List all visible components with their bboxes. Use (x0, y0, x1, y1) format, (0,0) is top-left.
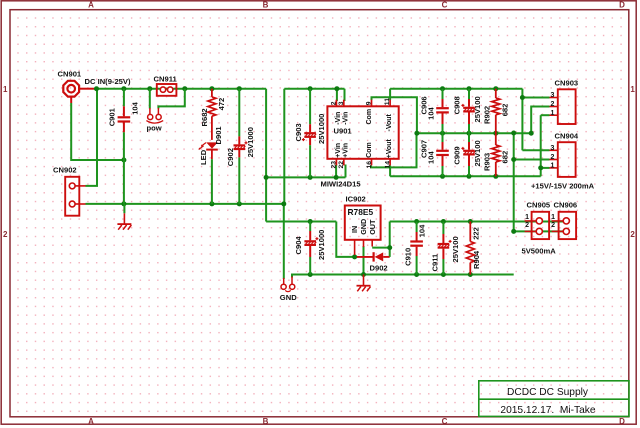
svg-text:22: 22 (338, 161, 345, 169)
junction at (531.2,133.2) (529, 131, 534, 136)
svg-text:CN901: CN901 (58, 70, 82, 79)
junction at (310.1,177.4) (308, 175, 313, 180)
wire +15V to CN904 pin1 (541, 167, 550, 169)
plus mark (C908) (461, 104, 464, 106)
wire R682 bottom lead (211, 116, 213, 140)
svg-text:C910: C910 (404, 248, 413, 266)
svg-text:3: 3 (551, 92, 555, 99)
svg-text:3: 3 (551, 145, 555, 152)
wire ground stub (input) (123, 204, 125, 213)
plus mark (C909) (461, 147, 464, 149)
svg-text:104: 104 (426, 151, 435, 164)
svg-text:B: B (263, 0, 269, 9)
resistor R682 (208, 97, 216, 116)
svg-text:R903: R903 (482, 153, 491, 171)
svg-text:A: A (88, 0, 94, 9)
junction at (416.9,133.2) (414, 131, 419, 136)
svg-text:2: 2 (630, 230, 635, 239)
wire DC+ descent at x=266 (265, 89, 267, 222)
wire DC+ drop to IN node (336, 222, 354, 257)
wire U901 pin9 Com to corner (372, 97, 417, 133)
wire C906 top lead (442, 89, 444, 99)
junction at (123.9,160) (121, 158, 126, 163)
wire C901 bottom lead (123, 132, 125, 204)
svg-text:IC902: IC902 (346, 195, 366, 204)
svg-text:Com: Com (366, 142, 373, 158)
pin stubs CN905 (525, 220, 537, 222)
junction at (283.8,203.9) (281, 201, 286, 206)
svg-text:1: 1 (551, 110, 555, 117)
svg-text:3: 3 (338, 101, 345, 105)
wire C904 top lead (309, 222, 311, 232)
svg-text:pow: pow (147, 124, 162, 133)
wire 0V to CN905/CN906 pin2 (514, 230, 567, 232)
svg-text:25V100: 25V100 (451, 236, 460, 262)
resistor R902 (492, 98, 500, 115)
capacitor C907 (442, 142, 444, 150)
wire C901 top lead (123, 89, 125, 107)
svg-text:R682: R682 (200, 108, 209, 126)
wire C911 top lead (442, 222, 444, 235)
junction at (513.7,231.4) (511, 229, 516, 234)
pin stub CN901 (80, 88, 94, 90)
wire D901 to GND rail (211, 159, 213, 204)
capacitor C908 (polarized) (468, 99, 470, 107)
junction at (416.6,221.5) (414, 219, 419, 224)
wire C902 top lead (238, 89, 240, 137)
wire +15V from U901 pin14 (389, 166, 391, 177)
junction at (513.7,159.5) (511, 157, 516, 162)
svg-text:C908: C908 (453, 96, 462, 114)
svg-text:CN906: CN906 (554, 201, 578, 210)
wire Com rail y=133 (417, 132, 531, 134)
pin stubs IC902 (354, 240, 356, 255)
wire C910 bottom lead (416, 256, 418, 275)
svg-text:R78E5: R78E5 (348, 207, 374, 217)
svg-text:+Vin: +Vin (342, 143, 349, 158)
title block box (479, 381, 629, 417)
connector CN905 (532, 212, 550, 239)
junction at (123.9,88.7) (121, 86, 126, 91)
wire C903 bottom lead (309, 145, 311, 177)
svg-text:IN: IN (350, 226, 359, 233)
svg-text:-Vin: -Vin (342, 112, 349, 125)
junction at (513.7,133) (511, 131, 516, 136)
junction at (363.5,274.5) (361, 272, 366, 277)
wire riser to U901 pin 3 (344, 89, 346, 101)
svg-text:104: 104 (417, 224, 426, 237)
wire R682 top lead (211, 89, 213, 97)
junction at (469,176.3) (467, 174, 472, 179)
svg-text:2: 2 (331, 101, 338, 105)
resistor R904 (466, 242, 474, 263)
svg-text:2: 2 (3, 230, 8, 239)
junction at (354.6,256.9) (352, 254, 357, 259)
junction at (495.8,133.2) (493, 131, 498, 136)
wire riser to U901 pin 2 (336, 89, 338, 101)
svg-text:+Vout: +Vout (386, 139, 393, 159)
svg-text:C903: C903 (294, 123, 303, 141)
pin stubs CN903 (550, 97, 558, 99)
wire U901 pin16 Com down and right (371, 133, 417, 167)
connector CN903 (558, 89, 576, 124)
svg-text:-Vin: -Vin (335, 112, 342, 125)
svg-text:682: 682 (500, 151, 509, 164)
op-amp IC902 (regulator R78E5) box (345, 206, 381, 240)
capacitor C910 (416, 232, 418, 241)
junction at (495.8,88.7) (493, 86, 498, 91)
wire -15V riser from U901 pin11 (389, 89, 391, 100)
capacitor C902 (polarized) (238, 136, 240, 144)
ground symbol (363, 275, 365, 286)
svg-text:C904: C904 (294, 236, 303, 255)
wire C903 top lead (309, 89, 311, 125)
svg-text:CN904: CN904 (555, 131, 579, 140)
svg-text:MIWI24D15: MIWI24D15 (321, 180, 362, 189)
svg-text:DC IN(9-25V): DC IN(9-25V) (85, 77, 131, 86)
wire +5V rail y=221.5 (390, 221, 567, 223)
wire R903 top lead (495, 133, 497, 145)
capacitor C906 (442, 99, 444, 107)
wire Com branch up to CN903 pin2 (531, 107, 549, 134)
svg-text:OUT: OUT (368, 219, 377, 235)
wire R902 top lead (495, 89, 497, 98)
wire C909 bottom lead (468, 166, 470, 176)
svg-text:2: 2 (525, 222, 529, 229)
svg-text:CN911: CN911 (154, 75, 178, 84)
wire C908 top lead (468, 89, 470, 99)
ground symbol (123, 213, 125, 224)
svg-text:5V500mA: 5V500mA (522, 247, 557, 256)
wire pow left drop (149, 89, 151, 109)
svg-text:2015.12.17. Mi-Take: 2015.12.17. Mi-Take (500, 405, 595, 416)
plus mark (C911) (449, 240, 452, 242)
svg-text:25V100: 25V100 (473, 96, 482, 122)
wire R904 bottom lead (469, 263, 471, 275)
svg-text:R904: R904 (472, 250, 481, 269)
junction at (239.3,203.9) (237, 201, 242, 206)
wire R903 bottom lead (495, 162, 497, 176)
pin stubs U901 top (335, 100, 337, 107)
svg-text:682: 682 (500, 104, 509, 117)
svg-text:25V1000: 25V1000 (317, 114, 326, 144)
wire C911 bottom lead (442, 259, 444, 275)
wire C902 bottom lead (238, 157, 240, 204)
wire R902 bottom lead (495, 115, 497, 133)
wire +5V riser x=389.7 (389, 222, 391, 257)
junction at (443.4,221.5) (441, 219, 446, 224)
junction at (239.3,88.7) (237, 86, 242, 91)
svg-text:9: 9 (366, 101, 373, 105)
junction at (443.4,274.5) (441, 272, 446, 277)
junction at (310.2,221.5) (308, 219, 313, 224)
svg-text:D901: D901 (214, 126, 223, 145)
connector CN904 (558, 142, 576, 177)
wire Com descent x=513.7 (513, 133, 515, 231)
jumper arc (pow) (146, 121, 163, 124)
wire +15V rail y=176.7 (390, 175, 541, 177)
wire D902 anode to riser (388, 256, 391, 258)
svg-text:2: 2 (551, 222, 555, 229)
capacitor C903 (polarized) (309, 124, 311, 132)
junction at (149.8,88.7) (147, 86, 152, 91)
svg-text:1: 1 (3, 85, 8, 94)
wire -15V to CN903 pin3 (522, 97, 549, 99)
capacitor C911 (polarized) (442, 234, 444, 243)
wire GND right terminal to 0V rail (292, 275, 514, 278)
svg-text:11: 11 (384, 98, 391, 105)
svg-text:C902: C902 (226, 148, 235, 166)
svg-text:1: 1 (551, 214, 555, 221)
capacitor C909 (polarized) (468, 142, 470, 150)
svg-text:GND: GND (359, 219, 368, 235)
svg-text:U901: U901 (334, 127, 353, 136)
connector CN901 (DC jack) (63, 81, 79, 97)
junction at (469,88.7) (467, 86, 472, 91)
svg-text:Com: Com (366, 109, 373, 125)
wire riser to U901 pin 23 (335, 165, 337, 178)
capacitor C904 (polarized) (309, 231, 311, 240)
wire -Vin descent x=284.3 to GND rail (283, 89, 285, 204)
capacitor C901 (123, 106, 125, 116)
junction at (389.7,247.6) (387, 245, 392, 250)
plus mark (C902) (245, 142, 248, 144)
testpoint pow-1 (149, 108, 151, 114)
svg-text:-Vout: -Vout (386, 113, 393, 131)
wire DC+ rail to IC902 area y=221.5 (266, 221, 336, 223)
LED D901 (206, 142, 218, 148)
wire C908 bottom lead (468, 124, 470, 133)
wire IC902 GND lead (363, 246, 365, 275)
resistor R903 (492, 145, 500, 162)
wire OUT node to +5V riser (372, 247, 390, 249)
wire IN node to D902 cathode (355, 256, 358, 258)
testpoint pow-2 (157, 108, 159, 114)
wire C907 top lead (442, 133, 444, 142)
wire C904 bottom lead (309, 257, 311, 275)
svg-text:104: 104 (131, 101, 140, 114)
svg-text:CN903: CN903 (555, 78, 579, 87)
junction at (470.3,274.5) (468, 272, 473, 277)
svg-text:25V100: 25V100 (473, 140, 482, 166)
svg-text:+Vin: +Vin (335, 143, 342, 158)
wire CN901 sleeve down (71, 103, 124, 160)
junction at (184.8,88.7) (182, 86, 187, 91)
svg-text:C: C (442, 0, 448, 9)
svg-text:B: B (263, 417, 269, 426)
svg-text:23: 23 (331, 161, 338, 169)
junction at (442.5,133.2) (440, 131, 445, 136)
wire -Vin rail segment y=88.7 (284, 88, 344, 90)
svg-text:DCDC DC Supply: DCDC DC Supply (507, 387, 589, 398)
junction at (336.9,88.7) (334, 86, 339, 91)
junction at (310.1,88.7) (308, 86, 313, 91)
wire C909 top lead (468, 133, 470, 142)
svg-text:C909: C909 (453, 146, 462, 164)
plus mark (C903) (302, 139, 305, 141)
pin stubs CN902 (75, 185, 85, 187)
svg-text:CN902: CN902 (53, 165, 77, 174)
LED arrows (D901) (201, 143, 206, 147)
pin stubs CN906 (552, 220, 564, 222)
wire CN902 pin1 riser (86, 89, 98, 186)
title block divider (479, 398, 629, 400)
junction at (540.7,167.9) (538, 165, 543, 170)
wire +15V riser to CN903/CN904 pin1 (540, 115, 542, 176)
svg-text:LED: LED (199, 149, 208, 165)
wire -15V rail y=88.7 (390, 88, 522, 90)
junction at (469,133.2) (467, 131, 472, 136)
svg-text:D902: D902 (370, 264, 388, 273)
svg-text:16: 16 (366, 161, 373, 169)
wire +15V to CN903 pin1 (541, 114, 550, 116)
junction at (336.1,177.4) (334, 175, 339, 180)
junction at (123.9,203.9) (121, 201, 126, 206)
connector CN902 (65, 177, 79, 216)
junction at (211.9,203.9) (209, 201, 214, 206)
svg-text:+15V/-15V 200mA: +15V/-15V 200mA (531, 182, 595, 191)
svg-text:1: 1 (551, 163, 555, 170)
svg-text:222: 222 (471, 227, 480, 240)
connector CN906 (559, 212, 577, 239)
wire DC+ top rail (94, 88, 266, 90)
svg-text:14: 14 (384, 161, 391, 169)
pin stubs CN904 (550, 149, 558, 151)
wire +Vin rail y=177.4 (266, 176, 345, 178)
junction at (522.4,97.5) (520, 95, 525, 100)
pin stubs U901 bottom (335, 159, 337, 166)
junction at (416.6,274.5) (414, 272, 419, 277)
svg-text:A: A (88, 417, 94, 426)
svg-text:C911: C911 (431, 253, 440, 272)
junction at (442.5,88.7) (440, 86, 445, 91)
svg-text:C901: C901 (108, 107, 117, 126)
wire GND rail y=203.9 (86, 203, 284, 205)
svg-text:C: C (442, 417, 448, 426)
junction at (266.1,177.4) (264, 175, 269, 180)
wire riser to U901 pin 22 (345, 165, 347, 178)
junction at (495.8,176.3) (493, 174, 498, 179)
svg-text:2: 2 (551, 154, 555, 161)
connector CN911 (157, 84, 177, 96)
svg-text:D: D (619, 0, 625, 9)
plus mark (C904) (315, 238, 318, 240)
wire -15V drop to CN903/CN904 pin3 (521, 89, 523, 151)
svg-text:GND: GND (280, 293, 297, 302)
svg-text:472: 472 (217, 98, 226, 111)
op-amp U901 (DC-DC converter MIWI24D15) box (327, 106, 398, 159)
junction at (470.3,221.5) (468, 219, 473, 224)
wire C907 bottom lead (442, 166, 444, 176)
svg-text:25V1000: 25V1000 (317, 230, 326, 260)
wire -15V to CN904 pin3 (522, 149, 549, 151)
wire Com to CN904 pin2 (514, 159, 550, 161)
wire C906 bottom lead (442, 124, 444, 133)
jumper arc (GND) (285, 290, 291, 291)
wire pow right drop (158, 89, 184, 109)
svg-text:1: 1 (525, 214, 529, 221)
GND terminal circles (283, 278, 285, 284)
wire R904 top lead (469, 222, 471, 242)
junction at (211.9,88.7) (209, 86, 214, 91)
svg-text:104: 104 (426, 106, 435, 119)
svg-text:25V1000: 25V1000 (246, 127, 255, 157)
svg-text:2: 2 (551, 101, 555, 108)
svg-text:D: D (619, 417, 625, 426)
wire GND left drop to GND terminals (283, 204, 285, 279)
svg-text:CN905: CN905 (527, 201, 551, 210)
svg-text:1: 1 (630, 85, 635, 94)
junction at (442.5,176.3) (440, 174, 445, 179)
junction at (310.2,274.5) (308, 272, 313, 277)
junction at (96.5,88.7) (94, 86, 99, 91)
diode D902 (357, 256, 374, 258)
wire C910 top lead (416, 222, 418, 233)
svg-text:R902: R902 (482, 106, 491, 124)
